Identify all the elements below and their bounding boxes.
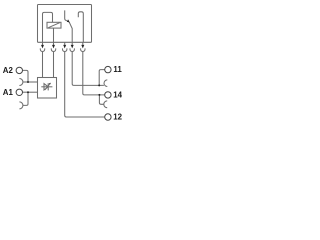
coil diagonal bbox=[48, 23, 59, 28]
svg-text:14: 14 bbox=[113, 90, 122, 99]
terminal 11 bbox=[105, 66, 111, 72]
junction node 14 bbox=[98, 94, 100, 96]
wire A1 to block bbox=[23, 91, 38, 93]
svg-text:A2: A2 bbox=[3, 66, 14, 75]
pin 1 stub bbox=[42, 42, 44, 45]
pin 5 stub bbox=[82, 42, 84, 45]
wire A1 clamp branch bbox=[23, 92, 28, 105]
terminal 12 bbox=[105, 114, 111, 120]
wire coil bottom lead bbox=[53, 28, 55, 42]
socket 4 + wire to node 11 bbox=[70, 48, 104, 85]
wire node 11 riser bbox=[99, 70, 105, 86]
clamp 11 bbox=[104, 80, 107, 87]
socket 2 bbox=[51, 48, 55, 77]
pin 1 plug arrow bbox=[41, 45, 44, 49]
contact NO loop bbox=[78, 12, 83, 43]
junction node A1 bbox=[27, 91, 29, 93]
clamp 14 bbox=[104, 101, 107, 108]
svg-text:11: 11 bbox=[113, 65, 122, 74]
wire clamp 14 branch bbox=[99, 95, 103, 104]
pin 2 stub bbox=[53, 42, 55, 45]
contact blade bbox=[69, 22, 72, 42]
terminal A1 bbox=[16, 89, 22, 95]
LED D1 arrow line bbox=[45, 84, 50, 90]
LED D1 cathode bar bbox=[47, 83, 49, 90]
pin 3 stub bbox=[64, 42, 66, 45]
wire A2 clamp stub bbox=[23, 81, 28, 83]
junction node A2 bbox=[27, 81, 29, 83]
wire A2 to block bbox=[28, 81, 38, 83]
clamp A2 bbox=[19, 79, 23, 86]
pin 5 plug arrow bbox=[81, 45, 84, 49]
wire A2 bbox=[23, 70, 28, 82]
LED D1 triangle bbox=[44, 84, 48, 90]
terminal 14 bbox=[105, 92, 111, 98]
svg-text:A1: A1 bbox=[3, 88, 14, 97]
socket 3 + wire to 12 bbox=[63, 48, 105, 117]
relay module K1 outer box bbox=[38, 5, 92, 43]
socket 5 + wire to 14 bbox=[81, 48, 105, 95]
contact fixed NC hook bbox=[65, 10, 67, 20]
relay coil K1 bbox=[47, 22, 61, 28]
input block bbox=[38, 78, 57, 99]
pin 4 stub bbox=[71, 42, 73, 45]
pin 2 plug arrow bbox=[52, 45, 55, 49]
pin 3 plug arrow bbox=[63, 45, 66, 49]
junction node 11 bbox=[98, 84, 100, 86]
LED arrowhead bbox=[49, 83, 51, 85]
pin 4 plug arrow bbox=[71, 45, 74, 49]
clamp A1 bbox=[19, 102, 23, 109]
LED D1 lead bbox=[41, 86, 52, 88]
svg-text:12: 12 bbox=[113, 113, 122, 122]
contact blade arrowhead bbox=[67, 19, 70, 22]
socket 1 bbox=[40, 48, 44, 77]
terminal A2 bbox=[16, 67, 22, 73]
wire coil feed loop bbox=[43, 12, 53, 42]
